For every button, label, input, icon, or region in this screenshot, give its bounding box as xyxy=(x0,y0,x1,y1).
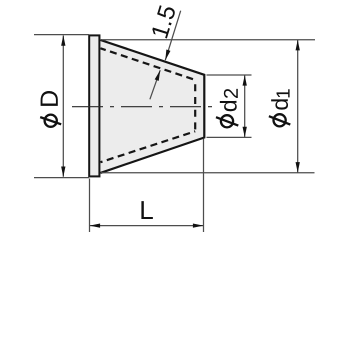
flange outline xyxy=(89,35,99,176)
cap body fill (cone) xyxy=(100,40,204,173)
dim line phid2 xyxy=(244,75,246,137)
extension line L left xyxy=(89,179,91,233)
extension line phid2 bottom xyxy=(207,136,252,138)
label phid2 symbol xyxy=(216,115,238,127)
label phid2 letters xyxy=(220,89,238,111)
label 1.5 xyxy=(151,4,176,38)
label phid1 letters xyxy=(271,89,289,109)
inner hidden line bottom xyxy=(101,131,196,162)
extension line phid2 top xyxy=(207,74,252,76)
dim line phiD xyxy=(62,36,64,177)
cone outline xyxy=(101,40,205,173)
leader 1.5 outer xyxy=(165,11,180,61)
label L xyxy=(141,201,152,219)
label phiD letter xyxy=(41,91,58,106)
extension line phid1 top xyxy=(101,39,315,41)
centerline xyxy=(72,106,212,108)
dim line phid1 xyxy=(297,40,299,173)
dim line L xyxy=(90,225,204,227)
extension line L right xyxy=(203,139,205,232)
extension line phiD bottom xyxy=(34,177,89,179)
extension line phid1 bottom xyxy=(101,172,315,174)
leader 1.5 inner xyxy=(150,70,160,99)
flange fill xyxy=(89,35,102,178)
label phid1 symbol xyxy=(269,114,290,126)
extension line phiD top xyxy=(34,34,89,36)
inner hidden line top xyxy=(101,48,196,80)
label phiD symbol xyxy=(40,115,61,127)
inner hidden line right xyxy=(194,80,196,131)
